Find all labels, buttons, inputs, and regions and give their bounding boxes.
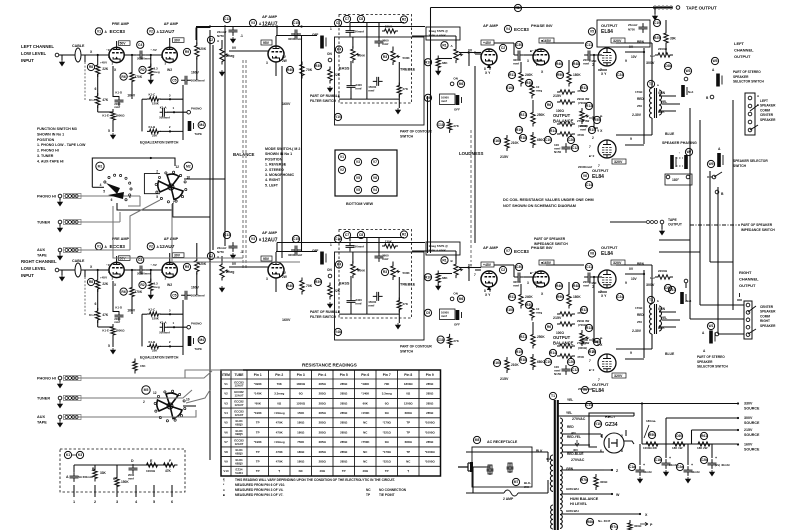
svg-text:EQUALIZATION SWITCH: EQUALIZATION SWITCH (140, 356, 179, 360)
wire (350, 91, 352, 99)
resistor 210K (505, 135, 509, 151)
svg-text:V10: V10 (595, 422, 601, 426)
ref K2 (207, 36, 214, 43)
svg-text:0Ω: 0Ω (406, 392, 411, 396)
loudness cap box (440, 309, 456, 320)
capacitor 20000mmf coupling (136, 51, 146, 60)
ref R11 (508, 293, 515, 300)
ref V4 (504, 25, 511, 32)
resistor K1-F 47K (96, 308, 100, 323)
ground (396, 108, 401, 114)
svg-text:≈10meg: ≈10meg (274, 440, 285, 444)
capacitor line filter 2 (507, 463, 514, 473)
svg-text:mmf: mmf (513, 62, 519, 66)
svg-text:320V: 320V (614, 374, 623, 378)
t2 (686, 175, 690, 179)
svg-text:68K: 68K (442, 61, 448, 65)
wire (520, 284, 522, 294)
wire treble top (392, 47, 394, 52)
resistor B 33K (93, 467, 97, 482)
capacitor filter 30mfd (662, 459, 671, 469)
svg-text:7: 7 (474, 273, 476, 277)
pot TREBLE 500K wiper (396, 270, 400, 272)
svg-text:V9: V9 (224, 459, 228, 463)
resistor 180K (567, 70, 571, 87)
table body (223, 380, 435, 475)
ref M5 (142, 386, 150, 394)
ref R3 (381, 53, 388, 60)
svg-text:R40: R40 (287, 284, 293, 288)
wire (113, 96, 119, 98)
resistor 680Ω (531, 354, 535, 370)
svg-text:170Ω: 170Ω (635, 306, 643, 310)
junction screen (643, 51, 645, 53)
capacitor 3400mmf (347, 82, 356, 92)
bottom view tube V2 (338, 166, 345, 173)
gnd arrow strip (737, 293, 742, 300)
svg-text:BOTTOM VIEW: BOTTOM VIEW (346, 202, 374, 206)
arrow down (575, 440, 579, 446)
wire tone to AF (475, 53, 481, 55)
wire to grid (229, 50, 268, 52)
wire to grid (229, 266, 268, 268)
wire aux tape to switch (72, 249, 130, 251)
output transformer secondary (659, 306, 662, 331)
loudness switch plug (456, 310, 462, 320)
svg-text:V5: V5 (224, 421, 228, 425)
ref R11 (508, 71, 515, 78)
ref R12 (580, 84, 587, 91)
ground (220, 70, 225, 76)
wire (160, 345, 183, 347)
svg-text:18K 1W: 18K 1W (672, 446, 683, 450)
resistor 27K tone (397, 298, 401, 313)
resistor 68K (436, 56, 440, 71)
ref R30 (525, 79, 532, 86)
triode V3 tone amp 12AU7 (268, 262, 284, 278)
wire strip 1 (700, 304, 744, 306)
svg-text:160V: 160V (282, 102, 291, 106)
svg-text:30000mmf: 30000mmf (288, 253, 302, 257)
capacitor 22mmf N750 (229, 26, 238, 36)
wire (113, 311, 119, 313)
svg-text:215V: 215V (500, 155, 509, 159)
svg-text:500K: 500K (403, 271, 411, 275)
bottom view tube V5b (354, 186, 361, 193)
bottom view tube V1 (338, 153, 345, 160)
wire rail drop (641, 404, 643, 445)
svg-text:500K: 500K (403, 56, 411, 60)
pentode EL84 upper (598, 270, 616, 288)
box 30V (173, 38, 185, 43)
svg-text:680Ω: 680Ω (405, 440, 413, 444)
svg-text:M4: M4 (199, 338, 204, 342)
capacitor filter 40mfd (636, 466, 645, 476)
svg-text:Pin 4: Pin 4 (318, 373, 326, 377)
wire (524, 276, 536, 278)
svg-text:C15: C15 (293, 237, 299, 241)
resistor 70K (300, 278, 304, 295)
svg-text:M2: M2 (186, 165, 191, 169)
wire rotary lower (117, 203, 173, 210)
pentode EL84 lower (598, 140, 616, 158)
box 320V b (612, 159, 626, 164)
svg-text:TP: TP (406, 421, 410, 425)
wire 300V (666, 417, 739, 419)
svg-text:K1-F: K1-F (89, 98, 96, 102)
svg-text:ECC83: ECC83 (110, 29, 126, 35)
svg-text:¶: ¶ (223, 478, 225, 482)
svg-text:2 AMP: 2 AMP (503, 497, 514, 501)
resistor 2200 (655, 275, 673, 279)
svg-text:R12: R12 (581, 308, 587, 312)
svg-text:R15: R15 (589, 350, 595, 354)
svg-text:R2: R2 (402, 233, 406, 237)
svg-text:CABLE: CABLE (72, 259, 85, 263)
wire (524, 54, 536, 56)
svg-text:270VAC: 270VAC (572, 417, 586, 421)
wire (221, 40, 223, 47)
wire screen lower (625, 144, 644, 146)
wire balance dashed 2 (245, 60, 247, 268)
svg-text:■: ■ (223, 493, 225, 497)
wire 120K up (196, 28, 198, 45)
selector plug right (717, 153, 723, 167)
resistor C 150K (115, 475, 119, 490)
svg-text:■−2: ■−2 (589, 154, 595, 158)
junction grid (593, 54, 595, 56)
svg-text:EL84: EL84 (592, 388, 604, 394)
svg-text:*1000Ω: *1000Ω (425, 459, 436, 463)
wire (711, 444, 713, 458)
svg-text:K1-F: K1-F (89, 313, 96, 317)
wire tape drop (430, 8, 432, 97)
wire aux 2 (72, 416, 160, 418)
wire bass bottom (350, 61, 352, 82)
svg-text:mmf: mmf (368, 89, 374, 93)
capacitor 3600mmf (375, 252, 384, 262)
wire shield dashed (84, 62, 86, 100)
svg-text:*170Ω: *170Ω (383, 421, 392, 425)
svg-text:C26: C26 (568, 138, 574, 142)
svg-text:300V: 300V (646, 283, 655, 287)
resistor F 47K (161, 463, 178, 467)
wire tape out 2 (610, 221, 646, 223)
ref R7c (610, 523, 617, 530)
svg-text:R6: R6 (547, 103, 551, 107)
svg-text:*60K: *60K (255, 401, 262, 405)
svg-text:GRN: GRN (658, 307, 666, 311)
svg-text:K1-D: K1-D (115, 91, 122, 95)
svg-text:120K: 120K (199, 262, 207, 266)
wire rotary out to bus (186, 390, 210, 403)
svg-text:3: 3 (527, 281, 529, 285)
junction bus (224, 25, 226, 27)
wire eq vertical (182, 85, 184, 140)
svg-text:■−2: ■−2 (589, 368, 595, 372)
wire (112, 121, 114, 133)
wire (196, 273, 198, 296)
power transformer core (555, 400, 558, 530)
svg-text:10V: 10V (631, 277, 638, 281)
capacitor 3600mmf (375, 37, 384, 47)
svg-text:X Y: X Y (485, 293, 491, 297)
wire plate to cap (276, 35, 317, 37)
svg-text:AC RECEPTACLE: AC RECEPTACLE (487, 440, 518, 444)
wire (97, 321, 99, 328)
ref C8 (357, 15, 364, 22)
wire (195, 28, 197, 41)
svg-text:0Ω: 0Ω (385, 411, 390, 415)
bottom view tube V3 (354, 158, 361, 165)
wire (167, 326, 187, 328)
wire tone top (350, 237, 404, 239)
wire (84, 270, 86, 277)
resistor 470K ob (557, 90, 575, 94)
resistor 22K grid (96, 62, 100, 77)
wire (659, 239, 690, 241)
wire plate to cap (276, 251, 317, 253)
pot BASS 500K wiper (356, 53, 360, 55)
svg-text:(300Ω): (300Ω) (578, 124, 587, 128)
svg-text:+: + (669, 456, 671, 460)
svg-text:500K: 500K (358, 54, 366, 58)
node 300V source (737, 417, 739, 419)
svg-text:40Ω: 40Ω (319, 469, 325, 473)
wire (150, 270, 152, 282)
svg-text:*221Ω: *221Ω (383, 430, 392, 434)
svg-text:*490K: *490K (361, 382, 370, 386)
wire (378, 23, 380, 38)
svg-text:20000mmf: 20000mmf (578, 387, 592, 391)
box 320V (611, 260, 625, 265)
svg-text:V5: V5 (356, 176, 360, 180)
svg-text:320V: 320V (614, 160, 623, 164)
resistor 250K (531, 332, 535, 349)
ground (231, 37, 236, 43)
svg-text:OFF: OFF (454, 108, 460, 112)
svg-text:V3: V3 (251, 21, 255, 25)
svg-text:9: 9 (625, 59, 627, 63)
wire bass top (352, 252, 354, 263)
speaker plug W3 (681, 85, 687, 97)
svg-text:7: 7 (589, 359, 591, 363)
resistor 39K (664, 30, 668, 46)
svg-text:THIS READING WILL VARY DEPENDI: THIS READING WILL VARY DEPENDING UPON TH… (235, 478, 395, 482)
svg-text:6BQ5: 6BQ5 (235, 452, 243, 456)
svg-text:285Ω: 285Ω (426, 382, 434, 386)
svg-text:R14: R14 (550, 351, 556, 355)
wire (659, 251, 700, 253)
tape out 2 cable (647, 221, 658, 224)
svg-text:130K: 130K (385, 240, 393, 244)
ref V1 (95, 243, 102, 250)
resistor 680Ω (531, 132, 535, 148)
svg-text:C2a: C2a (677, 465, 683, 469)
svg-text:R13: R13 (586, 326, 592, 330)
resistor 240K (519, 292, 523, 309)
capacitor A 600mmf (70, 472, 79, 482)
wire (146, 54, 162, 56)
tape output network box (597, 20, 650, 47)
wire speaker bus 4 (732, 100, 734, 310)
resistor K1-C 150K (147, 97, 161, 101)
wire speaker bus 1 (689, 108, 691, 319)
box 30V (173, 253, 185, 258)
svg-text:2: 2 (592, 136, 594, 140)
wire box to volume (412, 35, 456, 37)
svg-text:TUNER: TUNER (37, 221, 50, 225)
svg-text:R8: R8 (89, 65, 93, 69)
ref R15 (588, 126, 595, 133)
resistor 290Ω 3W (557, 322, 575, 326)
ref M7 (512, 478, 519, 485)
ref R8 (87, 278, 94, 285)
capacitor D 2000mmf (129, 464, 138, 474)
capacitor filter (2x) 40mfd (708, 459, 717, 469)
wire 215V (692, 429, 740, 431)
svg-text:K1-A: K1-A (160, 106, 168, 110)
svg-text:1: 1 (330, 27, 332, 31)
ref C1a (628, 463, 635, 470)
svg-text:PRE AMP: PRE AMP (112, 22, 130, 26)
svg-text:NO CONNECTION: NO CONNECTION (379, 488, 407, 492)
junction tape (517, 6, 519, 8)
wire (651, 265, 653, 304)
svg-text:V6: V6 (583, 174, 587, 178)
svg-text:mmf: mmf (382, 257, 388, 261)
svg-text:−.5V: −.5V (151, 48, 157, 52)
wire speaker bus 2 (699, 120, 701, 305)
wire filament loop (589, 413, 634, 447)
wire left branch (141, 314, 143, 346)
svg-text:BALANCE: BALANCE (233, 152, 255, 157)
svg-text:C1b: C1b (655, 458, 661, 462)
svg-text:8: 8 (621, 449, 623, 453)
svg-text:12AU7: 12AU7 (262, 238, 278, 244)
svg-text:N750: N750 (217, 250, 224, 254)
svg-text:0V: 0V (629, 267, 634, 271)
wire 470K down (131, 82, 133, 100)
contact B (710, 95, 714, 99)
svg-text:X Y: X Y (601, 72, 607, 76)
ground (660, 229, 665, 235)
wire (59, 419, 61, 421)
svg-text:C24: C24 (617, 73, 623, 77)
ref R9 (183, 48, 190, 55)
svg-text:meg: meg (536, 89, 542, 93)
svg-text:C12: C12 (572, 146, 578, 150)
svg-text:470K: 470K (276, 450, 284, 454)
ground (638, 477, 643, 483)
svg-text:TP: TP (406, 450, 410, 454)
shielded cable TUNER (64, 219, 82, 224)
wire phono hi to switch (72, 195, 140, 197)
wire ladder left (97, 74, 99, 96)
junction (169, 313, 171, 315)
ground (58, 254, 63, 260)
resistor 1000Ω 2W (643, 442, 661, 446)
svg-text:RESISTANCE READINGS: RESISTANCE READINGS (302, 363, 357, 368)
svg-text:YEL: YEL (661, 100, 667, 104)
svg-text:270Ω 3W: 270Ω 3W (577, 119, 590, 123)
ref C10 (544, 136, 551, 143)
ref C10 (544, 358, 551, 365)
svg-text:R39: R39 (315, 64, 321, 68)
ref V8 (588, 250, 595, 257)
svg-text:70K: 70K (384, 382, 390, 386)
wire plate up (116, 41, 118, 47)
wire (349, 23, 351, 27)
svg-text:R25: R25 (654, 36, 660, 40)
box 45V (481, 40, 494, 45)
svg-text:2-30V: 2-30V (632, 113, 642, 117)
svg-text:R16b: R16b (493, 139, 501, 143)
wire plate (275, 36, 277, 46)
svg-text:R10b: R10b (506, 308, 514, 312)
svg-text:YEL: YEL (661, 316, 667, 320)
ref C2b (700, 456, 707, 463)
wire (160, 98, 183, 100)
output transformer core (655, 88, 657, 118)
resistor K1-E 1800 (111, 324, 115, 338)
wire (398, 95, 400, 109)
svg-text:N150: N150 (554, 150, 562, 154)
svg-text:300V: 300V (646, 61, 655, 65)
svg-text:R2: R2 (140, 283, 144, 287)
capacitor 20000mmf coupling (136, 266, 146, 275)
output transformer primary (650, 304, 652, 334)
svg-text:R10b: R10b (506, 86, 514, 90)
wire (59, 198, 61, 200)
wire red-yel (562, 444, 590, 446)
wire lower plate to OPT (616, 134, 652, 136)
svg-text:RED-BLUE: RED-BLUE (567, 452, 583, 456)
svg-text:V1: V1 (97, 30, 101, 34)
svg-text:V1: V1 (340, 155, 344, 159)
svg-text:PHASE INV: PHASE INV (531, 23, 553, 28)
svg-text:2: 2 (94, 500, 96, 504)
svg-text:TP: TP (385, 469, 389, 473)
ref R50 (648, 431, 655, 438)
pot TREBLE 500K (391, 263, 395, 280)
RIGHT input jack (55, 268, 59, 272)
wire fuse2 (518, 492, 548, 494)
ref R6 (120, 73, 127, 80)
svg-text:EL84: EL84 (601, 251, 613, 257)
svg-text:AF AMP: AF AMP (164, 22, 179, 26)
svg-text:*190K: *190K (254, 440, 263, 444)
wire jack phono-hi bottom (150, 371, 212, 378)
wire yel 2 (558, 415, 634, 417)
ground (220, 286, 225, 292)
ref W1 (707, 322, 714, 329)
svg-text:1−2: 1−2 (650, 276, 655, 280)
resistor K4-B 15K (133, 359, 137, 374)
svg-text:RED-YEL: RED-YEL (567, 435, 581, 439)
svg-text:M7: M7 (514, 480, 519, 484)
rectifier GZ34 tube (604, 433, 624, 453)
wire plug gnd (472, 467, 474, 493)
svg-text:RED: RED (637, 313, 644, 317)
ref C9 (424, 94, 431, 101)
low level network dashed box (60, 449, 185, 492)
svg-text:R15: R15 (589, 128, 595, 132)
svg-text:12: 12 (153, 391, 157, 395)
resistor 240K (519, 70, 523, 87)
ref R16b (493, 359, 501, 366)
wire (160, 313, 183, 315)
